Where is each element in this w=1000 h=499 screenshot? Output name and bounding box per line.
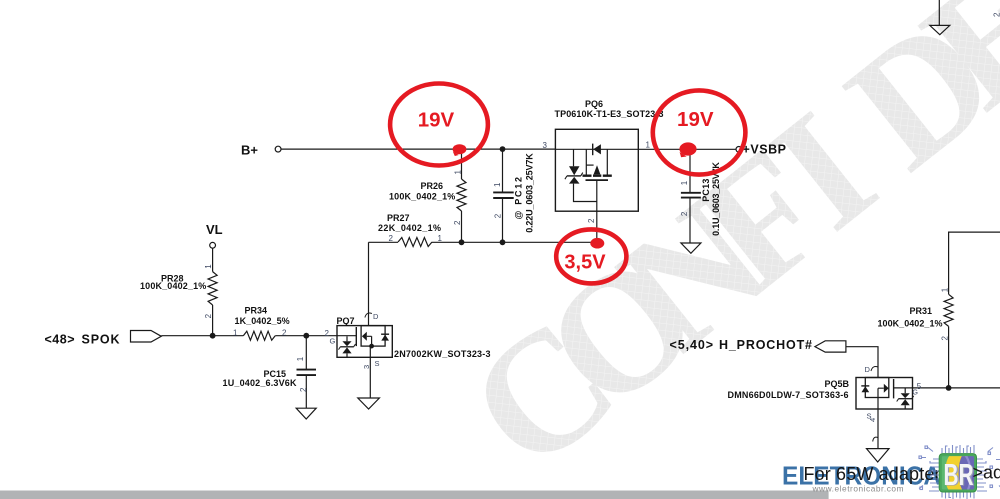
transistor PQ6 gate zener <box>565 149 597 201</box>
svg-text:1U_0402_6.3V6K: 1U_0402_6.3V6K <box>223 378 298 388</box>
svg-text:www.eletronicabr.com: www.eletronicabr.com <box>812 483 904 493</box>
value PR34 <box>235 316 290 326</box>
svg-text:B+: B+ <box>241 143 258 158</box>
pin 1 PR31 <box>941 287 950 292</box>
terminal +VSBP <box>736 147 742 153</box>
svg-text:2N7002KW_SOT323-3: 2N7002KW_SOT323-3 <box>394 349 491 359</box>
svg-text:100K_0402_1%: 100K_0402_1% <box>140 281 206 291</box>
pin 2 PR27 <box>389 234 394 243</box>
logo chip body <box>939 449 982 497</box>
wire PR27 to 3,5V node <box>432 241 597 243</box>
net label +VSBP <box>743 142 787 156</box>
pin D PQ7 <box>373 312 379 321</box>
svg-text:PR27: PR27 <box>387 213 410 223</box>
wire PQ7 source to ground <box>369 357 371 398</box>
svg-text:PQ6: PQ6 <box>585 99 603 109</box>
annotation dot 3,5V node <box>590 238 604 249</box>
pin 2 PR34 <box>282 328 287 337</box>
svg-text:2: 2 <box>494 213 503 218</box>
svg-text:100K_0402_1%: 100K_0402_1% <box>389 192 455 202</box>
pin 2 PQ7 <box>325 329 330 338</box>
ground under PC13 <box>681 243 701 253</box>
svg-text:3: 3 <box>543 141 548 150</box>
designator PR26 <box>421 181 444 191</box>
svg-text:S: S <box>375 359 380 368</box>
resistor PR26 <box>457 179 466 211</box>
wire PR31 bottom to PQ5B gate rail <box>948 326 950 388</box>
junction node B+-PC12 <box>500 146 506 152</box>
resistor PR31 <box>944 294 953 326</box>
value PC15 <box>223 378 298 388</box>
svg-text:H_PROCHOT#: H_PROCHOT# <box>719 338 812 352</box>
wire PC15 bottom to ground <box>305 376 307 409</box>
logo text ELETRONICA <box>782 461 941 491</box>
annotation dot 19V left node <box>453 144 467 156</box>
pin 1 PR26 <box>454 170 463 175</box>
pin 1 PQ6 <box>646 141 651 150</box>
pin 1 PC15 <box>296 356 305 361</box>
svg-text:19V: 19V <box>418 108 455 131</box>
net label 48 SPOK <box>45 332 120 346</box>
junction node rail242-PC12 <box>500 239 506 245</box>
transistor PQ5B box <box>856 378 913 410</box>
junction node SPOK-PC15 <box>303 333 309 339</box>
designator PC13 rotated <box>701 179 711 202</box>
caption continuation ad <box>973 462 1000 482</box>
ground top-right <box>930 25 950 34</box>
wire PC13 bottom to ground <box>689 198 691 243</box>
svg-text:3,5V: 3,5V <box>564 252 606 274</box>
svg-text:BR: BR <box>944 457 974 492</box>
pin hook PQ7 drain <box>365 313 372 318</box>
resistor PR34 <box>243 331 275 340</box>
svg-text:PR34: PR34 <box>245 306 268 316</box>
junction node SPOK-PR28 <box>210 333 216 339</box>
terminal B+ <box>275 146 281 152</box>
transistor PQ7 inner mosfet <box>356 326 389 358</box>
value PC12 rotated <box>525 153 535 233</box>
svg-text:2: 2 <box>204 313 213 318</box>
junction node rail242-PR26 <box>459 239 465 245</box>
pin 3 PQ5B <box>865 365 871 374</box>
pin 2 PC12 <box>494 213 503 218</box>
svg-text:SPOK: SPOK <box>82 332 120 346</box>
resistor PR27 <box>398 238 432 247</box>
value PC13 rotated <box>711 162 721 236</box>
svg-text:2: 2 <box>389 234 394 243</box>
wire top-right ground stem <box>938 0 940 25</box>
svg-text:19V: 19V <box>677 108 714 131</box>
svg-text:VL: VL <box>206 222 223 237</box>
capacitor PC13 <box>681 193 701 198</box>
wire H_PROCHOT flag to PQ5B drain <box>846 347 878 378</box>
pin 1 PR27 <box>438 234 443 243</box>
svg-text:1: 1 <box>233 328 238 337</box>
designator PR28 <box>161 273 184 283</box>
pin 3 PQ6 <box>543 141 548 150</box>
pin 1 PR34 <box>233 328 238 337</box>
svg-text:@ PC12: @ PC12 <box>514 177 524 220</box>
designator PQ6 <box>585 99 603 109</box>
svg-text:TP0610K-T1-E3_SOT23-3: TP0610K-T1-E3_SOT23-3 <box>555 109 664 119</box>
wire VL terminal down to PR28 <box>212 248 214 271</box>
pin G PQ7 <box>330 337 336 346</box>
annotation circle 19V left <box>390 84 488 166</box>
svg-text:3: 3 <box>362 365 371 369</box>
value PQ5B <box>728 390 849 400</box>
wire PC15 tap down from SPOK rail <box>305 336 307 369</box>
annotation text 3,5V <box>564 252 606 274</box>
transistor PQ7 gate zener <box>339 336 356 357</box>
svg-text:4: 4 <box>868 418 877 422</box>
junction node PQ7 source <box>369 344 374 349</box>
svg-text:<5,40>: <5,40> <box>670 338 714 352</box>
transistor PQ5B gate zener <box>897 388 914 409</box>
connector flag H_PROCHOT# <box>815 341 846 352</box>
ground under PQ5B <box>867 449 890 462</box>
annotation circle 3,5V <box>556 229 626 283</box>
wire PR34 to PQ7 gate <box>275 335 356 337</box>
value PR31 <box>878 318 943 328</box>
resistor PR28 <box>208 272 217 305</box>
pin 3 PQ7 <box>362 365 371 369</box>
pin 5 PQ5B <box>917 382 922 391</box>
transistor PQ6 box <box>555 129 638 211</box>
svg-text:PQ7: PQ7 <box>337 316 355 326</box>
bottom gray bar <box>0 491 829 499</box>
pin 2 PR28 <box>204 313 213 318</box>
designator PR27 <box>387 213 410 223</box>
designator PQ5B <box>825 379 850 389</box>
designator PR31 <box>910 306 933 316</box>
svg-text:1: 1 <box>438 234 443 243</box>
terminal VL <box>210 242 216 248</box>
pin hook PQ5B source <box>873 437 878 441</box>
svg-text:D: D <box>865 365 871 374</box>
pin 2 PR31 <box>941 336 950 341</box>
wire B+ to node 19V <box>281 148 555 150</box>
net label B+ <box>241 143 258 158</box>
svg-text:PQ5B: PQ5B <box>825 379 850 389</box>
svg-text:PC13: PC13 <box>701 179 711 202</box>
svg-text:1: 1 <box>296 356 305 361</box>
pin 2 PR26 <box>453 220 462 225</box>
wire corner down to PQ7 drain <box>368 242 370 325</box>
svg-text:<48>: <48> <box>45 332 75 346</box>
transistor PQ6 channel and gate <box>583 149 612 211</box>
pin 2 PQ6 <box>587 218 596 223</box>
svg-text:D: D <box>373 312 379 321</box>
logo chip traces <box>919 445 1000 499</box>
svg-text:G: G <box>330 337 336 346</box>
svg-text:+VSBP: +VSBP <box>743 142 787 156</box>
pin 1 PC13 <box>680 180 689 185</box>
svg-text:2: 2 <box>299 387 308 392</box>
annotation dot 19V right node <box>679 142 696 157</box>
capacitor PC15 <box>297 370 317 376</box>
annotation text 19V left <box>418 108 455 131</box>
wire PQ5B source to ground <box>877 409 879 449</box>
svg-text:PR26: PR26 <box>421 181 444 191</box>
pin 2 top-right edge <box>993 12 1000 17</box>
svg-text:CONFIDENTIAL: CONFIDENTIAL <box>435 0 1000 499</box>
capacitor PC12 <box>493 192 514 198</box>
svg-text:>ad: >ad <box>973 462 1000 482</box>
value PR27 <box>378 223 441 233</box>
watermark CONFIDENTIAL <box>435 0 1000 499</box>
wire PQ6 pin2 down to 3,5V node <box>596 211 598 240</box>
pin 1 PC12 <box>493 182 502 187</box>
transistor PQ7 box <box>337 326 392 358</box>
pin 2 PC13 <box>680 211 689 216</box>
transistor PQ5B inner mosfet <box>861 378 893 410</box>
svg-text:2: 2 <box>282 328 287 337</box>
logo url www.eletronicabr.com <box>812 483 904 493</box>
wire PC13 top from 19V node <box>689 152 691 192</box>
svg-text:0.22U_0603_25V7K: 0.22U_0603_25V7K <box>525 153 535 233</box>
wire node 19V down to resistor PR26 <box>461 152 463 179</box>
designator PC12 rotated <box>514 177 524 220</box>
value PR28 <box>140 281 206 291</box>
pin S PQ5B <box>867 412 872 421</box>
value PR26 <box>389 192 455 202</box>
svg-text:G: G <box>913 390 918 397</box>
pin 1 PR28 <box>204 264 213 269</box>
ground under PC15 <box>296 408 316 419</box>
designator PR34 <box>245 306 268 316</box>
svg-text:1: 1 <box>941 287 950 292</box>
caption For 65W adapter <box>804 464 941 484</box>
svg-text:100K_0402_1%: 100K_0402_1% <box>878 318 943 328</box>
wire PC12 bottom to rail y242 <box>502 199 504 243</box>
svg-text:1K_0402_5%: 1K_0402_5% <box>235 316 290 326</box>
svg-text:22K_0402_1%: 22K_0402_1% <box>378 223 441 233</box>
pin hook PQ5B drain <box>871 367 878 372</box>
wire rail y242 from corner to PR27 <box>369 241 399 243</box>
wire PQ5B gate to right edge <box>894 387 1000 389</box>
svg-text:1: 1 <box>454 170 463 175</box>
svg-text:2: 2 <box>453 220 462 225</box>
net label VL <box>206 222 223 237</box>
svg-text:1: 1 <box>646 141 651 150</box>
value PQ7 <box>394 349 491 359</box>
value PQ6 <box>555 109 664 119</box>
svg-text:2: 2 <box>993 12 1000 17</box>
pin S PQ7 <box>375 359 380 368</box>
pin 4 PQ5B <box>868 418 877 422</box>
svg-text:2: 2 <box>941 336 950 341</box>
svg-text:1: 1 <box>680 180 689 185</box>
wire PR28 to SPOK rail <box>212 305 214 336</box>
svg-text:DMN66D0LDW-7_SOT363-6: DMN66D0LDW-7_SOT363-6 <box>728 390 849 400</box>
designator PQ7 <box>337 316 355 326</box>
net label 5,40 H_PROCHOT# <box>670 338 813 352</box>
wire resistor PR26 to node y242 <box>461 211 463 242</box>
wire right edge to PR31 top corner <box>949 232 1000 294</box>
pin 2 PC15 <box>299 387 308 392</box>
svg-text:2: 2 <box>587 218 596 223</box>
annotation text 19V right <box>677 108 714 131</box>
logo text BR <box>944 457 975 492</box>
svg-text:1: 1 <box>493 182 502 187</box>
ground under PQ7 <box>358 398 380 409</box>
svg-text:For 65W adapter: For 65W adapter <box>804 464 941 484</box>
wire PQ6 pin1 to +VSBP terminal <box>638 148 736 150</box>
svg-text:1: 1 <box>204 264 213 269</box>
junction node PR31-PQ5B <box>946 385 952 391</box>
transistor PQ6 body diode <box>555 144 638 156</box>
pin G PQ5B <box>913 390 918 397</box>
wire SPOK flag to PR34 <box>161 335 243 337</box>
designator PC15 <box>264 369 287 379</box>
annotation circle 19V right <box>653 90 746 174</box>
svg-text:PR31: PR31 <box>910 306 933 316</box>
wire PC12 tap from B+ rail <box>502 149 504 192</box>
connector flag SPOK <box>131 331 162 343</box>
svg-text:2: 2 <box>680 211 689 216</box>
